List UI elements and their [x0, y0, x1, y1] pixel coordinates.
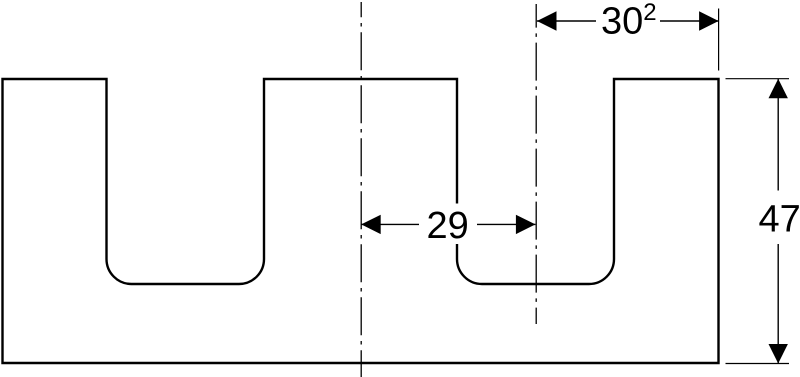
extension line for 30 dimension (above part right edge)	[718, 9, 720, 71]
center line CL1 (part center, x=361)	[360, 2, 362, 377]
arrowhead top of 47 dim	[769, 79, 788, 99]
arrowhead right of 29 dim	[516, 215, 536, 234]
extension line top for 47 dimension	[726, 78, 790, 80]
center line CL2 (right cutout center, x=536)	[535, 4, 537, 324]
svg-text:47: 47	[759, 199, 800, 241]
halo behind 47 text	[753, 191, 800, 245]
arrowhead right of 30 dim	[699, 11, 719, 30]
halo behind 29 text	[419, 204, 477, 245]
svg-text:29: 29	[427, 205, 469, 247]
dimension line 47 (vertical, x=778.2)	[777, 79, 779, 364]
halo behind 30 text	[596, 2, 660, 36]
part outline with two U-shaped cutouts	[3, 79, 719, 363]
arrowhead left of 29 dim	[361, 215, 381, 234]
dimension line 29 (horizontal, y=224.4)	[361, 223, 535, 225]
dimension line 30 (horizontal, y=21)	[537, 20, 719, 22]
arrowhead left of 30 dim	[537, 11, 557, 30]
arrowhead bottom of 47 dim	[769, 344, 788, 364]
extension line bottom for 47 dimension	[726, 363, 790, 365]
